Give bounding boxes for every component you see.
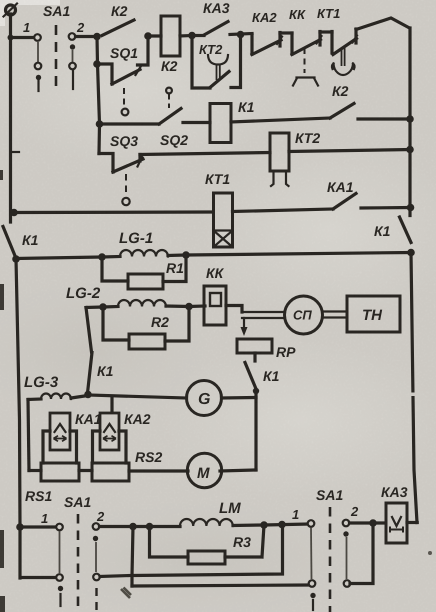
node R junction (260, 521, 268, 529)
current relay KA1 (43, 411, 102, 463)
node G junction (rung5 left) (12, 255, 20, 263)
wire LM row with inductor LM (133, 500, 308, 527)
wire SA1r-2 to KA3 (350, 521, 387, 524)
contact K1 (LG-3 branch) (88, 353, 114, 394)
wire node C to KA3 contact (192, 34, 204, 37)
node J junction (99, 303, 107, 311)
coil KT1 with X box (205, 171, 233, 247)
node S junction (278, 521, 286, 529)
wire rung3 left (140, 153, 270, 155)
resistor R2 (parallel to LG-2) (103, 307, 189, 349)
mechanical link SP-TH (323, 312, 348, 318)
node T junction (369, 519, 377, 527)
limit switch SQ3 (99, 133, 143, 205)
wire rung3 right to rail (289, 150, 410, 152)
wire T drop to bottom (350, 523, 373, 584)
box TH (347, 296, 400, 332)
wire KK to corner (226, 306, 242, 313)
wire node B to coil K2 (148, 34, 161, 37)
wire top rail to SA1 col1 (11, 36, 35, 39)
wire parallel bypass to LM row node (133, 525, 283, 576)
node I junction (182, 251, 190, 259)
contact K1 (below RP) (245, 363, 280, 391)
node R3j junction (407, 204, 415, 212)
selsyn SP circle (285, 296, 323, 334)
wire RS2 to M (129, 469, 188, 472)
wire G right (222, 396, 257, 400)
coil K1 (210, 99, 255, 143)
wire rung5 with inductor LG-1 (16, 230, 411, 259)
generator G (187, 381, 222, 416)
heater element KK (204, 265, 226, 325)
wire K2 contact to right rail (358, 117, 410, 120)
wire SA1-2 bottom to drop (100, 576, 130, 577)
contact KT1 (NC, time delay) (317, 6, 357, 75)
node M junction (LG-3) (84, 391, 92, 399)
wire rung2 left (100, 122, 160, 125)
wire LG-3 left drop (28, 400, 29, 471)
contact KA2 (NC) (252, 10, 282, 55)
arrow into RP (243, 318, 245, 328)
wire rail seg KA2-KK (280, 31, 292, 34)
wire left rail upper (9, 14, 12, 222)
wire LG-2 row with inductor LG-2 (66, 285, 205, 308)
contact KA1 (327, 179, 356, 209)
contact K2 (rung2) (330, 83, 354, 118)
node P junction (129, 523, 137, 531)
wire coil K2 to node C (180, 34, 192, 38)
limit switch SQ1 (93, 36, 148, 115)
node A junction (93, 33, 101, 41)
mechanical link KK-SP (double line) (242, 312, 285, 318)
contact K1 (right rail) (374, 217, 411, 243)
wire stub to KA2 coil (110, 398, 113, 413)
wire rung4 left (14, 210, 213, 214)
edge artifact marks (12, 151, 19, 153)
switch SA1 (bottom left) (20, 494, 105, 612)
wire SA1 to node A (76, 35, 98, 38)
wire into RS1 (29, 469, 41, 472)
wire LG-2 feed vertical (86, 308, 92, 353)
motor M (187, 453, 221, 487)
wire M right (220, 470, 256, 471)
node R1j junction (406, 115, 414, 123)
wire bottom long row (132, 585, 308, 586)
contact K2 (top) (102, 3, 134, 36)
wire LM row drop to bottom row (132, 527, 133, 587)
wire vertical G-M right (254, 390, 257, 470)
terminal X1 (slashed circle) (4, 4, 18, 17)
wire right rail (408, 28, 411, 216)
node F junction (rung4 left) (10, 209, 18, 217)
wire KA3 to right rail (407, 521, 417, 524)
node B junction (144, 32, 152, 40)
contact KK (NC thermal) (289, 7, 322, 86)
node R4j junction (407, 249, 415, 257)
wire rail end rise to right rail (356, 18, 410, 30)
potentiometer RP (237, 339, 296, 361)
relay KA3 element (381, 484, 408, 543)
coil KT2 (270, 130, 320, 186)
wire rung4 mid (233, 209, 334, 212)
node E junction (96, 120, 104, 128)
shunt RS1 box (41, 463, 79, 481)
node H junction (98, 253, 106, 261)
node Q junction (146, 523, 154, 531)
node R2j junction (406, 146, 414, 154)
wire coil K1 to K2 contact (231, 118, 330, 122)
wire KA3 to node D (230, 34, 252, 35)
resistor R3 (parallel to LM) (150, 525, 265, 564)
wire left rail lower (16, 259, 20, 527)
wire LG-3 row with inductor LG-3 (24, 374, 187, 400)
wire right rail lower (411, 253, 417, 523)
switch SA1 (top) (23, 3, 85, 93)
shunt RS2 box (92, 463, 129, 481)
resistor R1 (parallel to LG-1) (102, 255, 186, 289)
coil K2 (161, 16, 180, 74)
node C junction (188, 32, 196, 40)
node D junction (237, 31, 245, 39)
wire SA1-2 to LM row (100, 525, 134, 528)
node N junction (bottom left rail) (16, 523, 24, 531)
contact KT2 (NO, time delay) (192, 35, 241, 88)
wire KA1 to right rail (361, 206, 411, 210)
switch SA1 (bottom right) (292, 487, 359, 612)
node L junction (253, 388, 259, 394)
limit switch SQ2 (159, 88, 188, 148)
wire left drop x97 (97, 37, 100, 154)
wire break artifact on right rail (411, 393, 417, 397)
wire SQ2 to coil K1 (183, 121, 210, 124)
wire rail seg KK-KT1 (320, 30, 332, 33)
contact K1 (left rail) (3, 227, 39, 258)
node X1j junction (8, 35, 14, 41)
current relay KA2 (93, 411, 151, 463)
wire RS1-RS2 (79, 469, 92, 472)
node K junction (185, 303, 193, 311)
contact KA3 (203, 0, 230, 35)
wire bottom left rail to corner (20, 527, 56, 578)
